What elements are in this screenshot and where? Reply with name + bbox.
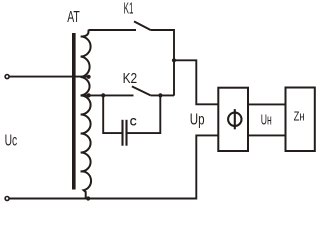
wire to Up (top feed) <box>174 60 218 104</box>
wire capacitor left lead <box>103 95 121 133</box>
switch K1 blade <box>134 21 151 30</box>
node capacitor branch right <box>158 93 162 97</box>
transformer core AT <box>72 33 76 190</box>
svg-text:Uн: Uн <box>261 112 272 129</box>
wire K2 left <box>81 94 134 96</box>
svg-text:Up: Up <box>190 112 205 129</box>
symbol F stem <box>234 109 236 129</box>
svg-text:C: C <box>130 116 137 128</box>
node tap lower (K2) <box>87 93 91 97</box>
wire bottom rail <box>9 135 218 198</box>
capacitor C plate right <box>125 120 127 146</box>
wire F to Zn bottom <box>248 134 286 136</box>
node K1/K2 join <box>172 58 176 62</box>
wire input top horizontal <box>9 76 89 78</box>
node bottom junction <box>86 196 90 200</box>
terminal input bottom <box>5 197 9 201</box>
wire K1 right <box>151 30 174 96</box>
wire F to Zn top <box>248 103 286 105</box>
switch K2 blade <box>132 86 151 95</box>
terminal input top <box>5 75 9 79</box>
svg-text:Zн: Zн <box>294 110 305 124</box>
svg-text:K2: K2 <box>123 70 138 87</box>
wire capacitor right lead <box>128 95 161 133</box>
node tap upper (input) <box>87 75 91 79</box>
wire K2 right <box>151 94 174 96</box>
wire K1 left <box>89 29 137 31</box>
block Zn (load) box <box>286 88 315 152</box>
capacitor C plate left <box>121 120 123 146</box>
svg-text:K1: K1 <box>124 1 134 18</box>
svg-text:AT: AT <box>67 9 80 26</box>
svg-text:Uc: Uc <box>5 132 18 149</box>
transformer winding AT <box>81 30 91 199</box>
node capacitor branch left <box>101 93 105 97</box>
symbol F circle <box>228 113 241 126</box>
block F (filter) box <box>218 88 248 151</box>
